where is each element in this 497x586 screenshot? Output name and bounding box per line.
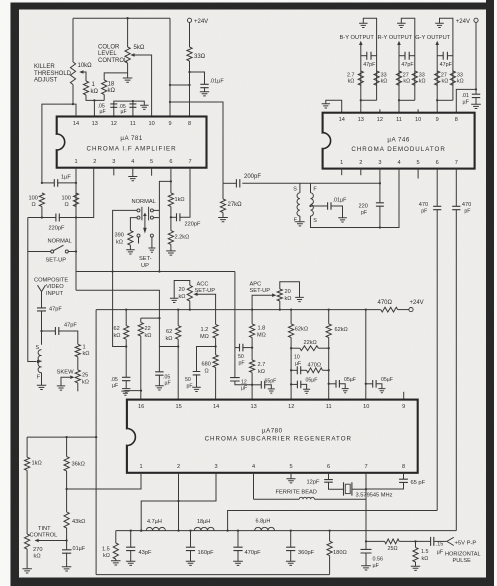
ground for tap cap [338, 218, 347, 222]
node crystal out [365, 488, 367, 490]
wire 360pF drop [290, 531, 292, 548]
node tint wiper [65, 539, 67, 541]
capacitor 50pF no2 [193, 372, 201, 375]
wire 62k2 top [177, 310, 179, 326]
wire 47pF to tap node [41, 311, 43, 345]
wire Y1 left drop [95, 310, 97, 575]
wire crystal to pin7 column [352, 488, 366, 490]
text 220pF pin3 [359, 204, 368, 216]
text +5V P-P [455, 541, 477, 547]
wire primary to ground [299, 216, 301, 222]
resistor 1.5k row end [113, 543, 118, 559]
resistor 62k no1 [124, 326, 129, 340]
wire R-Y 47pF link [399, 55, 405, 57]
wire apc filter 50pF left [235, 347, 240, 349]
wire ferrite lead right [314, 489, 366, 499]
text NORMAL left switch [48, 239, 72, 245]
wire 62k1 bottom [125, 339, 127, 377]
stub pin 2 uA746 [360, 169, 362, 176]
capacitor 47pF B-Y [367, 52, 371, 60]
text 18 kohm [108, 81, 116, 94]
wire pin10 column [365, 310, 367, 400]
wire to second 47pF [42, 330, 56, 332]
wire 220pF feedback to pin7 [179, 168, 190, 218]
wire tap to .01uF [311, 205, 328, 207]
text 470pF pin6 [419, 202, 428, 214]
text R-Y OUTPUT [378, 35, 413, 41]
wire pin6 junction [170, 168, 172, 193]
wire 22k2 right stub [318, 347, 328, 349]
wire 12uF cap drop [234, 348, 236, 378]
wire pin3 column lower [379, 206, 381, 228]
ground for bypass rail [140, 105, 149, 109]
wiper arrow of 10k pot [79, 70, 83, 74]
wire 1k chain to 270k [26, 470, 28, 534]
text .05uF c [381, 377, 393, 383]
resistor 62k no4 [326, 324, 331, 338]
wire pin5 uA780 stub [290, 473, 292, 479]
wire 1.5k row top [115, 531, 117, 543]
capacitor .15uF pulse [431, 537, 434, 546]
capacitor 50pF no1 [240, 344, 243, 352]
terminal +24V top-left [187, 18, 191, 22]
capacitor 12uF [230, 378, 240, 381]
text 220pF input [49, 225, 65, 231]
wire pin1 column of uA781 [75, 168, 77, 291]
text 200pF [244, 174, 261, 180]
text 2.2k [175, 235, 190, 241]
wire switch row left [28, 218, 51, 252]
wire 1k to 220pF node [170, 207, 172, 231]
resistor 22k horizontal [300, 346, 319, 351]
potentiometer 25k skew [75, 370, 80, 383]
resistor 100 ohm left [39, 193, 44, 207]
ground 50pF no2 [192, 387, 201, 391]
text .01uF [210, 79, 225, 85]
wire 18k top to 5k pot bottom [104, 73, 127, 80]
wire .01uF tint to ground [66, 553, 68, 567]
text 22k bank [145, 326, 152, 339]
node 65pF join [251, 384, 253, 386]
rail bottom return [96, 574, 330, 576]
wire 65pF to bracket [264, 385, 271, 389]
wire apc filter 50pF right [242, 347, 252, 349]
resistor 1.5k pulse [413, 547, 418, 562]
wire 12uF to node [235, 381, 252, 385]
wire c4 to column [153, 217, 159, 219]
text 2.7 [347, 72, 355, 84]
node pin6 fork [170, 180, 172, 182]
switch NORMAL/SET-UP right contact [65, 250, 68, 253]
wire G-Y 47pF link [437, 55, 443, 57]
wire 5k pot bottom lead [127, 63, 129, 78]
node 1uF ends [41, 182, 77, 184]
text 100 ohm right [62, 195, 71, 208]
text .05uF no1 [111, 377, 119, 389]
capacitor .01uF on +24V [472, 94, 480, 97]
wire G-Y legs join [437, 99, 453, 101]
wire 220pF feedback left [171, 216, 177, 218]
wire .05b bracket [339, 384, 345, 389]
text 3.579545 MHz [356, 493, 393, 499]
wire pin7 uA780 column [365, 473, 367, 542]
ground pin5 uA780 [287, 479, 296, 483]
wire pin16 ground branch [125, 390, 140, 393]
wire acc pot top [174, 281, 190, 299]
resistor 1k below killer wiper [83, 81, 88, 95]
wire pin6-746 return [228, 511, 438, 531]
wire 43pF drop [130, 531, 132, 548]
text 50pF no2 [185, 377, 193, 390]
text 33k R-Y [419, 72, 426, 84]
wire transformer secondary top [310, 183, 312, 193]
rail LC filter row [116, 530, 457, 532]
wire 22k top corner [140, 318, 142, 322]
wire second 47pF to 1k [58, 331, 78, 344]
wire 470 to terminal [398, 309, 409, 311]
wire 220pF row [28, 217, 56, 219]
text 180 ohm [333, 550, 347, 556]
resistor 43k [64, 512, 69, 528]
wire 1uF link right [57, 182, 76, 184]
text .05uF b [344, 377, 356, 383]
wire secondary bottom to pin4 rail [311, 169, 400, 228]
ground 470pF row [233, 561, 243, 565]
wire 1.5k pulse bottom [415, 562, 417, 566]
ground .05uF no2 [155, 386, 164, 390]
node top rail / color level pot [126, 17, 128, 19]
resistor 1.2M [213, 324, 218, 338]
text 65pF xtal [411, 480, 426, 486]
wire circle1 column to 62k1 [113, 272, 127, 347]
text 6.8uH [256, 518, 271, 524]
wire 50pF branch [197, 347, 216, 372]
text 62k no3 [295, 326, 308, 332]
wire 50pF2 ground [196, 374, 198, 387]
node 62k2 mid [177, 345, 179, 347]
wire apc pot top [280, 282, 300, 298]
ground .05uF c [378, 389, 385, 393]
wire 470h right stub [323, 369, 329, 371]
text .01uF tap [333, 197, 348, 203]
node B-Y join [360, 99, 362, 101]
capacitor 470pF row [233, 547, 242, 550]
wire 160pF drop [190, 531, 192, 548]
text 62k no1 [114, 326, 121, 339]
wire pin3 uA780 branch [141, 473, 216, 531]
wire .05b left [329, 383, 336, 385]
capacitor .05uF on pin 12 [110, 104, 117, 107]
capacitor 47pF R-Y [405, 52, 409, 60]
switch section bars [141, 207, 143, 221]
ground below 27k [218, 218, 228, 222]
ground at top of R-Y stage [397, 23, 406, 27]
text KILLER THRESHOLD ADJUST [34, 64, 72, 83]
ground below transformer primary [295, 222, 305, 226]
node pulse takeoff [365, 540, 367, 542]
ground 360pF [286, 561, 296, 565]
resistor 2.7k [250, 360, 255, 372]
wire 1k to 25k pot [77, 357, 79, 370]
wire 36k leads [66, 437, 68, 457]
capacitor 220pF pin3 [376, 203, 384, 206]
wire 1k to pin13 node [86, 95, 104, 100]
text 390k [115, 233, 124, 246]
resistor 1k pin6 [168, 193, 173, 207]
resistor 27k [220, 199, 225, 213]
wire pin4 uA781 ground stub [132, 168, 134, 177]
text 1.5k row [102, 546, 110, 559]
capacitor .05uF b [336, 380, 339, 388]
op-amp IC U1 uA781 chroma IF amplifier [55, 117, 206, 168]
wire pin11 cap [132, 101, 134, 116]
text NORMAL center switch [132, 199, 156, 205]
text 1.5k pulse [421, 549, 429, 562]
arrow skew wiper [70, 375, 74, 379]
text 47pF input1 [49, 306, 62, 312]
wire pin4 uA780 to ferrite [253, 473, 255, 499]
text 470pF row [245, 550, 262, 556]
capacitor .05uF no1 [122, 377, 130, 380]
node pin11 taps [328, 347, 330, 385]
wire 18k bottom lead [103, 95, 105, 101]
wire 1k chain top [26, 437, 28, 457]
text SKEW [57, 370, 75, 376]
text 50pF no1 [238, 354, 245, 367]
text 33k G-Y [457, 72, 464, 84]
resistor 2.2k [168, 231, 173, 245]
text S F transformer left [293, 186, 297, 223]
node pin9 junctions [169, 71, 191, 103]
capacitor 220pF input [56, 214, 59, 222]
arrow G-Y output terminal [435, 41, 439, 45]
wire 62k3 top [290, 310, 292, 324]
wire 65pF return [366, 482, 404, 489]
text 27 [403, 72, 410, 84]
ground 1.5k pulse [411, 566, 420, 570]
text 47pF R-Y [401, 62, 414, 68]
node 680 top [214, 345, 216, 347]
capacitor .01uF tint [62, 550, 71, 553]
terminal +24V mid [409, 308, 413, 312]
wire 270k to ground [26, 549, 28, 569]
wire +24V down right side [456, 22, 476, 112]
capacitor 0.56uF [361, 549, 372, 553]
wire 62k4 top [328, 310, 330, 324]
wire B-Y legs join [361, 99, 377, 101]
wire pin6 uA780 to 12pF [328, 473, 330, 480]
text 270k [33, 547, 43, 560]
switch contact c1 [137, 209, 140, 212]
wire pin2 uA780 column [178, 473, 180, 531]
wire bypass cap to ground [475, 97, 477, 104]
stub pin9 uA780 [403, 392, 405, 400]
capacitor .01uF tap [328, 202, 331, 210]
wire 470pF row drop [237, 531, 239, 548]
arrow coil tap [37, 360, 41, 364]
switch blade [54, 245, 64, 250]
text 470 ohm supply [378, 300, 393, 306]
wire pin9 column of uA781 [169, 18, 171, 116]
resistor 62k no3 [289, 324, 294, 338]
inductor 4.7uH [146, 527, 165, 530]
resistor 470 ohm supply [381, 307, 398, 312]
wire +24V bypass cap [475, 89, 477, 94]
node pin2 wire [177, 500, 179, 532]
ground 160pF [186, 561, 195, 565]
switch actuator arrow [143, 213, 147, 216]
text COMPOSITE VIDEO INPUT [34, 277, 68, 297]
text 22k no2 [304, 340, 317, 346]
wire 100 ohm left bottom [41, 207, 43, 218]
demodulator IC U2 uA746 [321, 113, 474, 169]
node Y1 taps [125, 308, 367, 310]
wire 12pF to crystal [329, 482, 344, 489]
node G-Y join [436, 99, 438, 101]
switch contact c2 [137, 216, 140, 219]
text 220pF feedback [185, 222, 201, 228]
stub pin 10 uA746 [417, 109, 419, 112]
wire pulse line mid [399, 540, 430, 542]
ground 270k [22, 569, 32, 573]
wire 1.8M to 2.7k [251, 338, 253, 361]
resistor 36k [64, 457, 69, 471]
regenerator IC U3 uA780 [126, 400, 418, 473]
wire B-Y right leg [363, 18, 376, 100]
wire B-Y 47pF link [361, 55, 367, 57]
ground .05uF a [303, 389, 310, 393]
text 100 ohm left [29, 195, 38, 208]
wire c2 to 390k [130, 218, 137, 231]
wire 25k open end [77, 383, 79, 391]
capacitor 65pF apc [261, 381, 264, 389]
text +24V mid [410, 300, 424, 306]
resistor 1k chain [25, 457, 30, 470]
node 1.5k pulse [414, 540, 416, 542]
arrow apc wiper [272, 293, 276, 297]
node 220pF bottom on pin4 rail [379, 226, 381, 228]
text F input coil [37, 375, 41, 381]
text 10k ohm [78, 63, 93, 69]
wire .05uF1 to ground [125, 380, 127, 388]
node 36k top [65, 436, 97, 438]
node 220pF feedback [170, 216, 172, 218]
text 47pF B-Y [363, 62, 376, 68]
wire +24V to 33 ohm [189, 22, 191, 47]
capacitor 47pF input series [37, 308, 46, 311]
wire 360pF to ground [290, 551, 292, 562]
text 5k ohm [134, 45, 145, 51]
wire 36k bottom [66, 471, 68, 489]
wire 36k top wire [27, 436, 97, 438]
wire 62k1 top [125, 310, 127, 326]
wire G-Y output left leg [436, 45, 438, 113]
switch contact c4 [150, 216, 153, 219]
wire 33 ohm to pin 8 of uA781 [189, 61, 191, 117]
text 20k apc [285, 289, 292, 302]
ground at top of G-Y stage [435, 23, 444, 27]
resistor 18k [102, 80, 107, 95]
inductor 18uH [194, 527, 214, 530]
capacitor 470pF pin7 [452, 206, 460, 209]
capacitor 65pF xtal [399, 479, 408, 482]
text ACC SET-UP [195, 281, 216, 294]
text .05uF pin11 [119, 104, 127, 115]
ferrite bead coil [299, 497, 314, 499]
text 1k skew [83, 344, 90, 357]
text +24V top-left [194, 19, 208, 25]
text 65pF apc [265, 378, 277, 384]
wire pin14 of uA746 to ground [326, 100, 342, 112]
node pin12 taps [290, 347, 292, 385]
node bus y271 [111, 270, 160, 272]
wire 43pF to ground [130, 551, 132, 562]
wire 390k to ground [129, 245, 131, 250]
ground 1.5k row [111, 561, 121, 565]
text 47pF input2 [64, 322, 77, 328]
wire pin6 to switch column [159, 181, 171, 271]
text SET-UP center switch [139, 256, 152, 269]
capacitor 220pF feedback [177, 213, 180, 221]
text 1k chain [32, 460, 42, 466]
text 18uH [197, 519, 210, 525]
potentiometer 5k color level [125, 47, 130, 63]
ground for +24V bypass [471, 104, 481, 108]
text 1k pin6 [175, 197, 185, 203]
wire pulse line left [366, 540, 385, 542]
wire .01uF to ground [204, 87, 206, 92]
node +24V bypass [475, 88, 477, 90]
wire 0.56uF drop [365, 541, 367, 549]
capacitor 1uF [54, 179, 57, 187]
node killer pot bottom on pin14 wire [72, 103, 74, 105]
text 2.7k [258, 362, 266, 375]
node bias 36k-43k [65, 488, 67, 490]
text 1.2M [200, 327, 209, 340]
wire 1.2M to 680 [215, 338, 217, 355]
wire .01uF tap to ground [331, 206, 343, 218]
node row taps [130, 529, 331, 531]
coil input S-F [38, 350, 41, 373]
wire 22k top link [141, 317, 160, 319]
wire 27k to ground [222, 213, 224, 218]
arrow tint wiper [35, 539, 39, 543]
wire pin8 uA780 to 65pF [403, 473, 405, 479]
resistor 62k no2 [176, 326, 181, 340]
text 4.7uH [147, 519, 162, 525]
capacitor .01uF bypass [200, 84, 208, 87]
wire 220pF row right [59, 168, 94, 218]
node R-Y join [398, 99, 400, 101]
wire apc drop [234, 272, 236, 348]
wire R-Y right leg [401, 18, 415, 100]
node 220pF row [41, 216, 77, 218]
antenna input symbol [38, 285, 46, 291]
capacitor 10uF [297, 366, 300, 374]
ground below c6 [148, 248, 155, 252]
wire killer pot top lead [72, 18, 74, 62]
ground for acc pot [170, 298, 179, 302]
wire 10uF left stub [291, 369, 297, 371]
ground below 390k [126, 250, 135, 254]
ground on uA746 pin 14 [322, 104, 331, 108]
wire 1uF link [42, 182, 54, 184]
text 33 ohm [194, 54, 206, 60]
wire pin3 column upper [379, 169, 381, 203]
wire R-Y output left leg [398, 45, 400, 113]
text TINT CONTROL [30, 526, 58, 539]
capacitor 47pF G-Y [443, 52, 447, 60]
